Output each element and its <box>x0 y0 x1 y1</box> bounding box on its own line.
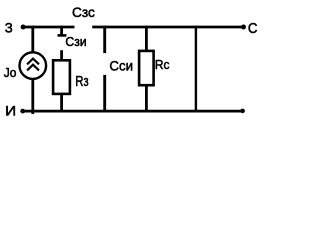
svg-text:Rc: Rc <box>155 57 170 72</box>
wire: top left segment (gate side, left plate of Сзс gap) <box>23 26 74 29</box>
svg-text:И: И <box>5 103 16 119</box>
current source Jo lower chevron <box>27 65 39 71</box>
svg-text:Сзи: Сзи <box>65 34 86 49</box>
svg-text:Rз: Rз <box>75 74 88 90</box>
resistor Rз body <box>53 60 70 94</box>
wire: Rз bottom lead <box>60 94 63 112</box>
current source Jo circle <box>20 52 47 79</box>
node С terminal dot <box>241 25 246 30</box>
svg-text:С: С <box>248 21 258 37</box>
wire: Сси branch bottom stub <box>103 75 106 112</box>
wire: bottom rail И-to-right <box>23 110 243 113</box>
node dot bottom right <box>240 109 245 114</box>
wire: Rc branch top lead <box>145 26 148 51</box>
svg-text:Сзс: Сзс <box>72 4 95 20</box>
wire: top right segment (drain side, right side of Сзс gap) <box>92 26 243 29</box>
wire: right vertical shunt <box>195 26 197 112</box>
current source Jo upper chevron <box>27 59 39 65</box>
wire: Rc branch bottom lead <box>145 85 148 112</box>
svg-text:Сси: Сси <box>109 57 133 73</box>
capacitor Сзи top plate <box>58 34 67 37</box>
node И terminal dot <box>20 109 25 114</box>
node З terminal dot <box>21 25 26 30</box>
wire: Jo branch bottom lead <box>31 78 34 114</box>
wire: Сзи bottom stub into Rз <box>60 50 63 60</box>
wire: Сзи branch top stub <box>60 26 63 36</box>
wire: Jo branch top lead <box>31 26 34 53</box>
svg-text:Jo: Jo <box>4 65 17 80</box>
wire: Сси branch top stub <box>103 26 106 53</box>
svg-text:З: З <box>5 20 13 36</box>
resistor Rc body <box>139 51 154 85</box>
